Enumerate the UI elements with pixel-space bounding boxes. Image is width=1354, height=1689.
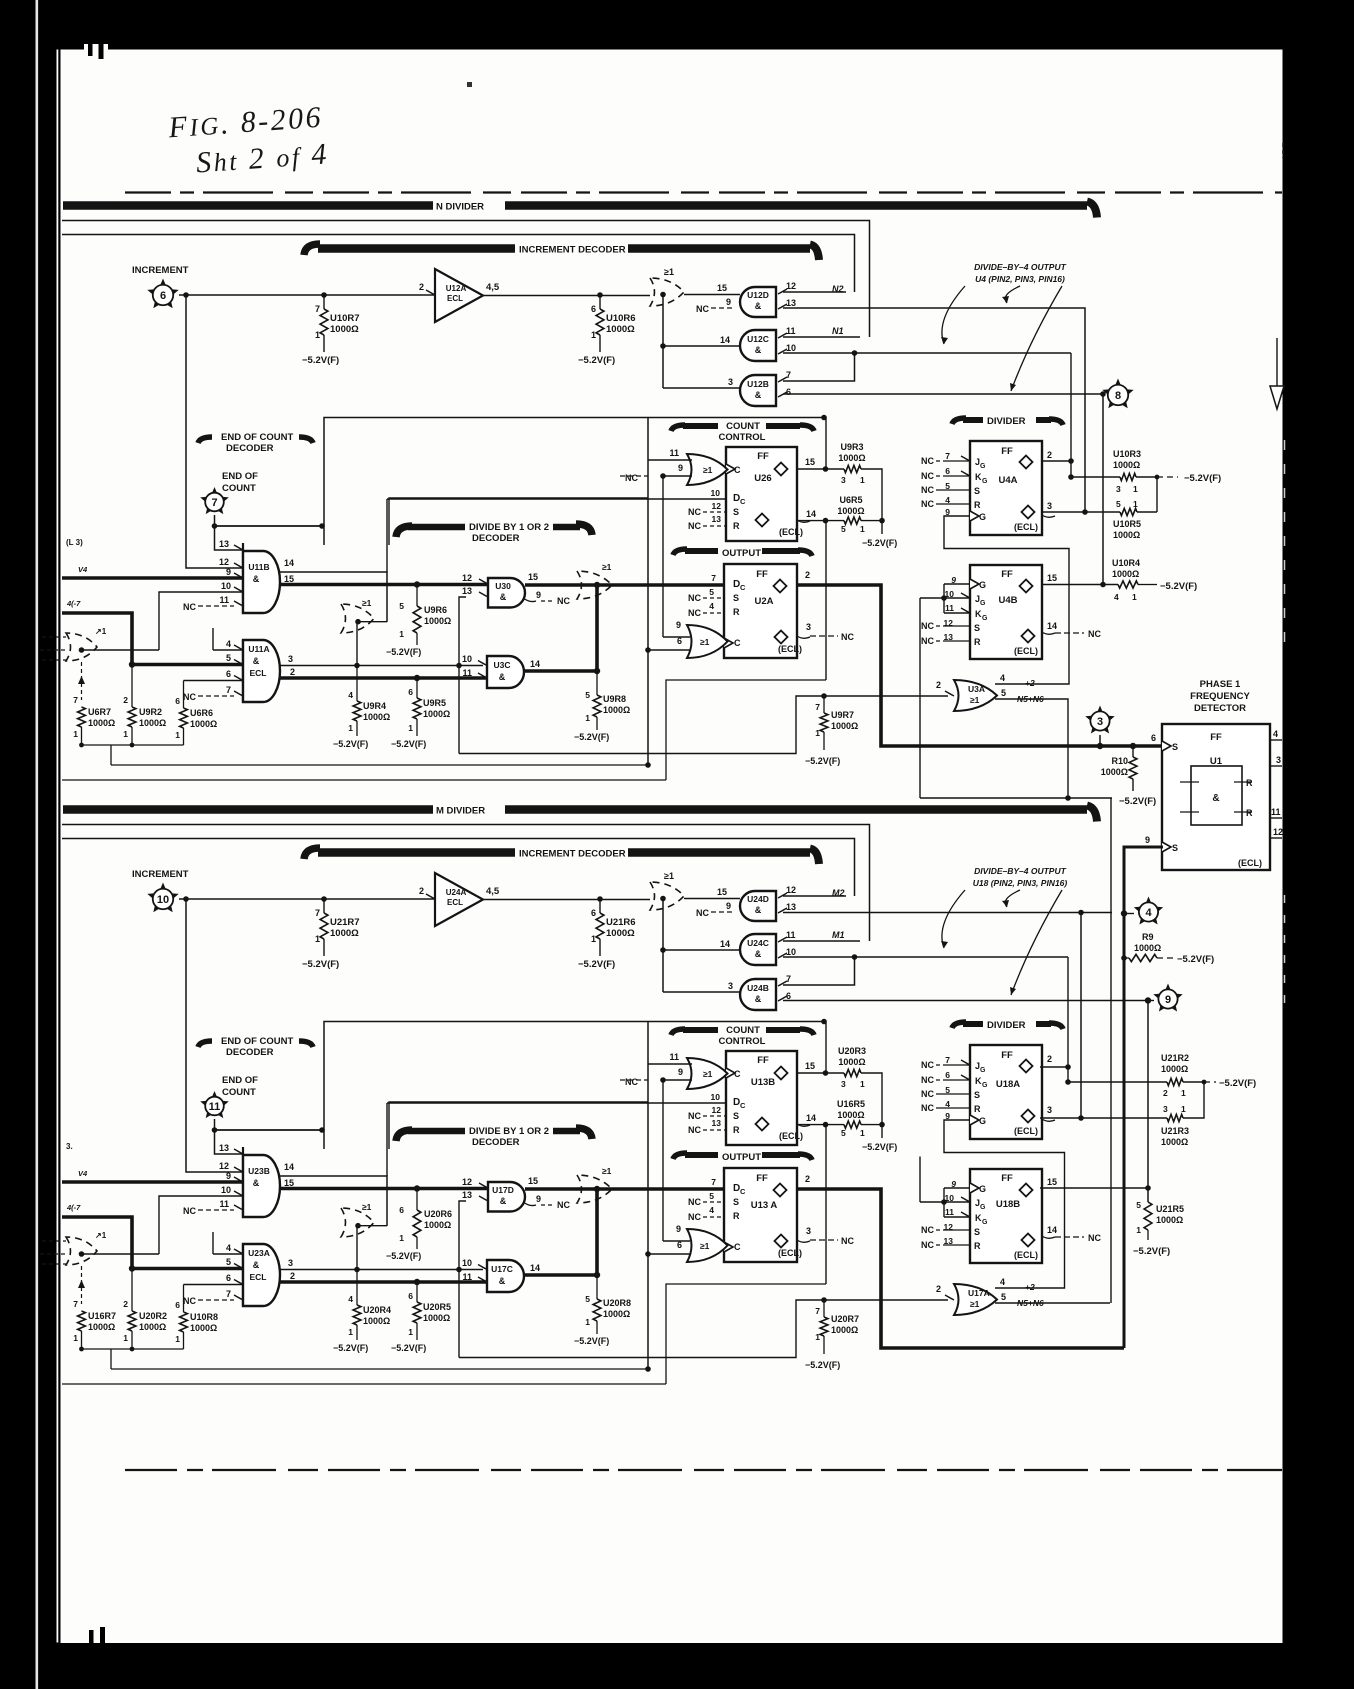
flip-flop U18A divider xyxy=(921,1045,1055,1139)
svg-text:−5.2V(F): −5.2V(F) xyxy=(386,647,421,657)
wire U18A pin3 output M xyxy=(1040,1117,1167,1119)
svg-text:15: 15 xyxy=(805,457,815,467)
wire down column xyxy=(645,418,651,768)
wire feedback upper xyxy=(324,1019,827,1149)
svg-text:NC: NC xyxy=(921,621,934,631)
svg-text:U9R4: U9R4 xyxy=(363,701,386,711)
svg-text:2: 2 xyxy=(1047,450,1052,460)
svg-text:5: 5 xyxy=(709,587,714,597)
svg-text:COUNT: COUNT xyxy=(222,1087,256,1098)
resistor U20R6 1000 xyxy=(386,1185,452,1261)
svg-text:K: K xyxy=(975,609,982,619)
svg-text:&: & xyxy=(755,345,762,355)
gate U17A OR xyxy=(936,1284,997,1315)
N DIVIDER section title band xyxy=(63,201,1097,217)
svg-text:11: 11 xyxy=(945,1207,954,1217)
stray mark xyxy=(467,82,472,87)
svg-text:5: 5 xyxy=(1116,499,1121,509)
svg-text:1: 1 xyxy=(408,723,413,733)
wire increment to gate inputs xyxy=(186,295,243,568)
resistor U10R6 1000 xyxy=(578,295,636,366)
svg-text:1: 1 xyxy=(1133,499,1138,509)
svg-text:−5.2V(F): −5.2V(F) xyxy=(333,1343,368,1353)
svg-text:C: C xyxy=(734,638,741,648)
svg-text:U20R5: U20R5 xyxy=(423,1302,451,1312)
svg-text:4: 4 xyxy=(1114,592,1119,602)
thick input wire 2 xyxy=(62,613,243,668)
svg-text:14: 14 xyxy=(530,659,540,669)
svg-text:NC: NC xyxy=(688,1125,701,1135)
svg-text:11: 11 xyxy=(786,930,796,940)
svg-text:13: 13 xyxy=(462,586,472,596)
svg-text:14: 14 xyxy=(1047,1225,1057,1235)
gate U24D AND xyxy=(684,885,796,921)
svg-text:4: 4 xyxy=(1000,673,1005,683)
wire U11B out14 xyxy=(280,1176,387,1226)
svg-text:3.: 3. xyxy=(66,1142,73,1151)
svg-text:FF: FF xyxy=(756,1173,768,1184)
svg-text:9: 9 xyxy=(678,1067,683,1077)
svg-text:≥1: ≥1 xyxy=(970,1299,980,1309)
svg-text:1: 1 xyxy=(123,1333,128,1343)
svg-text:15: 15 xyxy=(1047,573,1057,583)
svg-text:4(-7: 4(-7 xyxy=(66,1203,81,1212)
svg-text:R: R xyxy=(733,1125,740,1135)
svg-text:−5.2V(F): −5.2V(F) xyxy=(1133,1246,1170,1257)
svg-text:ECL: ECL xyxy=(447,898,463,907)
svg-text:7: 7 xyxy=(786,974,791,984)
svg-text:5: 5 xyxy=(1136,1200,1141,1210)
svg-text:≥1: ≥1 xyxy=(703,465,713,475)
svg-text:12: 12 xyxy=(786,885,796,895)
svg-text:&: & xyxy=(253,1178,260,1188)
svg-text:G: G xyxy=(982,478,988,485)
resistor U20R7 1000 xyxy=(805,1300,859,1370)
svg-text:1000Ω: 1000Ω xyxy=(190,1323,217,1333)
svg-text:1000Ω: 1000Ω xyxy=(603,1309,630,1319)
resistor U21R6 1000 xyxy=(578,899,636,970)
end of count decoder title xyxy=(198,432,313,454)
svg-text:R9: R9 xyxy=(1142,932,1154,942)
svg-text:1000Ω: 1000Ω xyxy=(423,1313,450,1323)
svg-text:10: 10 xyxy=(221,581,231,591)
svg-text:U3A: U3A xyxy=(968,684,985,694)
svg-text:3: 3 xyxy=(841,475,846,485)
flip-flop U13B xyxy=(688,1051,816,1145)
svg-text:DIVIDE BY 1 OR 2: DIVIDE BY 1 OR 2 xyxy=(469,522,549,533)
svg-text:NC: NC xyxy=(696,304,709,314)
svg-text:&: & xyxy=(253,574,260,584)
svg-text:+2: +2 xyxy=(1025,678,1035,688)
svg-text:U17C: U17C xyxy=(491,1264,513,1274)
svg-text:≥1: ≥1 xyxy=(700,637,710,647)
svg-text:5: 5 xyxy=(226,653,231,663)
svg-text:4: 4 xyxy=(709,601,714,611)
svg-text:5: 5 xyxy=(709,1191,714,1201)
resistor U21R5 1000 xyxy=(1133,1200,1184,1257)
registration tick marks top xyxy=(88,42,93,56)
svg-text:9: 9 xyxy=(1145,835,1150,845)
svg-text:6: 6 xyxy=(677,1240,682,1250)
svg-text:U20R3: U20R3 xyxy=(838,1046,866,1056)
node 7 END OF COUNT star xyxy=(200,471,258,514)
svg-text:ECL: ECL xyxy=(250,1272,267,1282)
end of count decoder title xyxy=(198,1036,313,1058)
svg-text:≥1: ≥1 xyxy=(602,1166,612,1176)
svg-text:U17D: U17D xyxy=(492,1185,514,1195)
svg-text:DECODER: DECODER xyxy=(226,1047,274,1058)
svg-text:≥1: ≥1 xyxy=(970,695,980,705)
svg-text:−5.2V(F): −5.2V(F) xyxy=(574,732,609,742)
flip-flop U4B divider xyxy=(921,565,1057,659)
svg-text:2: 2 xyxy=(1163,1088,1168,1098)
svg-text:NC: NC xyxy=(921,636,934,646)
svg-text:NC: NC xyxy=(1088,1233,1101,1243)
svg-text:4: 4 xyxy=(1145,907,1152,919)
svg-text:U6R6: U6R6 xyxy=(190,708,213,718)
svg-text:10: 10 xyxy=(711,1092,721,1102)
svg-text:5: 5 xyxy=(841,524,846,534)
svg-text:NC: NC xyxy=(557,596,570,606)
wire M2 feedback xyxy=(62,839,855,897)
svg-text:S: S xyxy=(733,1111,739,1121)
svg-text:NC: NC xyxy=(921,1103,934,1113)
edge arrow symbol xyxy=(1276,338,1278,388)
svg-text:5: 5 xyxy=(585,1294,590,1304)
svg-text:2: 2 xyxy=(290,1271,295,1281)
wire N5N6 output xyxy=(920,688,1112,801)
wire increment row xyxy=(183,896,603,902)
resistor R9 1000 xyxy=(1121,932,1214,965)
divider title xyxy=(952,416,1063,427)
svg-text:1: 1 xyxy=(860,524,865,534)
thick trunk upper xyxy=(280,1186,724,1192)
svg-text:15: 15 xyxy=(805,1061,815,1071)
svg-text:1000Ω: 1000Ω xyxy=(139,1322,166,1332)
svg-text:INCREMENT DECODER: INCREMENT DECODER xyxy=(519,849,626,860)
svg-text:−5.2V(F): −5.2V(F) xyxy=(574,1336,609,1346)
svg-text:V4: V4 xyxy=(78,1169,88,1178)
svg-text:1: 1 xyxy=(315,934,320,944)
svg-text:U10R7: U10R7 xyxy=(330,313,360,324)
svg-text:U13B: U13B xyxy=(751,1077,775,1088)
svg-text:13: 13 xyxy=(219,539,229,549)
flip-flop U18B divider xyxy=(921,1169,1057,1263)
left margin white gap line xyxy=(36,0,39,1689)
svg-text:K: K xyxy=(975,472,982,482)
svg-text:G: G xyxy=(979,1116,986,1126)
svg-text:6: 6 xyxy=(1151,733,1156,743)
svg-text:U12C: U12C xyxy=(747,334,769,344)
svg-text:14: 14 xyxy=(806,1113,816,1123)
svg-text:1000Ω: 1000Ω xyxy=(1112,569,1139,579)
svg-text:DIVIDER: DIVIDER xyxy=(987,1020,1026,1031)
wire resistor common xyxy=(79,1347,183,1369)
svg-text:7: 7 xyxy=(945,451,950,461)
svg-text:U26: U26 xyxy=(754,473,771,484)
resistor U9R3 1000 xyxy=(797,418,882,521)
svg-text:1: 1 xyxy=(585,713,590,723)
svg-text:9: 9 xyxy=(676,620,681,630)
wire M1 feedback xyxy=(62,825,870,942)
svg-text:R: R xyxy=(974,500,981,510)
svg-text:6: 6 xyxy=(786,991,791,1001)
svg-text:COUNT: COUNT xyxy=(726,421,760,432)
svg-text:4,5: 4,5 xyxy=(486,282,500,293)
gate U11B AND ECL xyxy=(183,539,294,613)
svg-text:1: 1 xyxy=(408,1327,413,1337)
resistor U10R8 1000 xyxy=(175,1285,243,1350)
wire star8 to U4B xyxy=(1100,394,1106,587)
wire N5+N6 bridge between sections xyxy=(1110,798,1112,1303)
svg-text:U11B: U11B xyxy=(248,562,269,572)
svg-text:1000Ω: 1000Ω xyxy=(139,718,166,728)
svg-text:7: 7 xyxy=(815,1306,820,1316)
svg-text:C: C xyxy=(740,1187,746,1196)
thick trunk lower xyxy=(280,585,600,678)
svg-text:1: 1 xyxy=(1181,1088,1186,1098)
svg-text:7: 7 xyxy=(73,695,78,705)
svg-text:(ECL): (ECL) xyxy=(778,644,802,654)
svg-text:K: K xyxy=(975,1076,982,1086)
svg-text:−5.2V(F): −5.2V(F) xyxy=(302,959,339,970)
svg-text:3: 3 xyxy=(1116,484,1121,494)
resistor U10R7 1000 xyxy=(302,295,360,366)
svg-text:G: G xyxy=(980,463,986,470)
svg-text:3: 3 xyxy=(728,377,733,387)
output title xyxy=(673,548,812,559)
svg-text:C: C xyxy=(740,1101,746,1110)
gate U17C AND xyxy=(462,1258,540,1292)
svg-text:END OF COUNT: END OF COUNT xyxy=(221,432,294,443)
long wire lower2 xyxy=(62,1284,826,1384)
svg-text:1000Ω: 1000Ω xyxy=(330,324,359,335)
flip-flop U1 phase detector xyxy=(1145,724,1283,870)
svg-text:1: 1 xyxy=(315,330,320,340)
wire U11B out14 xyxy=(280,572,387,622)
svg-text:1000Ω: 1000Ω xyxy=(1113,530,1140,540)
svg-text:V4: V4 xyxy=(78,565,88,574)
svg-text:−5.2V(F): −5.2V(F) xyxy=(386,1251,421,1261)
resistor U10R4 1000 xyxy=(1102,558,1197,602)
svg-text:2: 2 xyxy=(805,570,810,580)
svg-text:END OF: END OF xyxy=(222,1075,258,1086)
svg-text:COUNT: COUNT xyxy=(222,483,256,494)
count control title xyxy=(671,421,814,443)
svg-text:6: 6 xyxy=(677,636,682,646)
svg-text:&: & xyxy=(499,1276,506,1286)
svg-text:2: 2 xyxy=(1047,1054,1052,1064)
cut wire labels left xyxy=(66,538,88,608)
svg-text:11: 11 xyxy=(786,326,796,336)
svg-text:12: 12 xyxy=(462,1177,472,1187)
node 6 INCREMENT input star xyxy=(132,265,189,308)
node 3 star xyxy=(1085,706,1114,747)
svg-text:9: 9 xyxy=(676,1224,681,1234)
phantom OR gate trunk xyxy=(577,1166,612,1203)
svg-text:S: S xyxy=(974,1227,980,1237)
svg-text:12: 12 xyxy=(219,1161,229,1171)
svg-text:NC: NC xyxy=(557,1200,570,1210)
svg-text:U18 (PIN2, PIN3, PIN16): U18 (PIN2, PIN3, PIN16) xyxy=(973,878,1068,888)
gate U30 AND xyxy=(462,572,571,608)
svg-text:N1: N1 xyxy=(832,326,844,336)
svg-text:15: 15 xyxy=(717,887,727,897)
svg-text:1: 1 xyxy=(591,934,596,944)
divide by 1 or 2 decoder box xyxy=(389,498,648,545)
svg-text:R: R xyxy=(974,1241,981,1251)
svg-text:1000Ω: 1000Ω xyxy=(1161,1137,1188,1147)
wire M2 label xyxy=(832,888,845,898)
resistor U9R7 1000 xyxy=(805,696,858,766)
svg-text:13: 13 xyxy=(786,902,796,912)
svg-text:1: 1 xyxy=(399,1233,404,1243)
svg-text:1000Ω: 1000Ω xyxy=(1113,460,1140,470)
divide by 1 or 2 title xyxy=(396,522,592,544)
phantom OR gate increment xyxy=(650,871,684,992)
svg-text:NC: NC xyxy=(688,608,701,618)
svg-text:1000Ω: 1000Ω xyxy=(88,1322,115,1332)
svg-text:1000Ω: 1000Ω xyxy=(837,1110,864,1120)
svg-text:5: 5 xyxy=(1001,1292,1006,1302)
svg-text:5: 5 xyxy=(226,1257,231,1267)
svg-text:7: 7 xyxy=(711,573,716,583)
wire U11B pin10 input xyxy=(159,1196,243,1254)
svg-text:≥1: ≥1 xyxy=(362,1202,372,1212)
svg-text:1000Ω: 1000Ω xyxy=(1134,943,1161,953)
svg-text:−5.2V(F): −5.2V(F) xyxy=(805,1360,840,1370)
M DIVIDER section title band xyxy=(63,805,1097,821)
svg-text:&: & xyxy=(1212,793,1219,804)
wire plus2 output xyxy=(1000,673,1035,688)
svg-text:7: 7 xyxy=(786,370,791,380)
svg-text:FF: FF xyxy=(1001,1050,1013,1061)
svg-text:1: 1 xyxy=(175,1334,180,1344)
wire U30 pin13 bus xyxy=(459,597,466,754)
svg-text:1: 1 xyxy=(860,1079,865,1089)
svg-text:NC: NC xyxy=(921,1225,934,1235)
resistor U6R7 1000 xyxy=(73,695,115,745)
resistor U10R5 1000 xyxy=(1113,499,1157,540)
svg-text:9: 9 xyxy=(226,1171,231,1181)
svg-text:13: 13 xyxy=(712,514,722,524)
svg-text:11: 11 xyxy=(1271,807,1281,817)
svg-text:1: 1 xyxy=(1136,1225,1141,1235)
svg-text:11: 11 xyxy=(669,1052,679,1062)
svg-text:R: R xyxy=(733,607,740,617)
svg-text:NC: NC xyxy=(688,1212,701,1222)
phantom dashes to resistor xyxy=(78,1266,85,1304)
svg-text:13: 13 xyxy=(462,1190,472,1200)
svg-text:INCREMENT: INCREMENT xyxy=(132,869,189,880)
svg-text:12: 12 xyxy=(712,1105,722,1115)
svg-text:(ECL): (ECL) xyxy=(779,1131,803,1141)
phantom dashes to resistor xyxy=(78,662,85,700)
svg-text:NC: NC xyxy=(183,1206,196,1216)
resistor U20R8 1000 xyxy=(574,1275,631,1346)
svg-text:2: 2 xyxy=(290,667,295,677)
svg-text:&: & xyxy=(755,905,762,915)
svg-text:R: R xyxy=(733,1211,740,1221)
wire end of count xyxy=(212,515,325,550)
svg-text:≥1: ≥1 xyxy=(700,1241,710,1251)
svg-text:14: 14 xyxy=(720,939,730,949)
node 11 END OF COUNT star xyxy=(200,1075,258,1118)
svg-text:1: 1 xyxy=(399,629,404,639)
svg-text:ECL: ECL xyxy=(250,668,267,678)
svg-text:7: 7 xyxy=(315,304,320,314)
svg-text:12: 12 xyxy=(1273,827,1283,837)
svg-text:U21R7: U21R7 xyxy=(330,917,360,928)
svg-text:NC: NC xyxy=(688,521,701,531)
svg-text:U18B: U18B xyxy=(996,1199,1020,1210)
svg-text:DIVIDE BY 1 OR 2: DIVIDE BY 1 OR 2 xyxy=(469,1126,549,1137)
svg-text:G: G xyxy=(979,512,986,522)
svg-text:2: 2 xyxy=(123,695,128,705)
phantom gate left xyxy=(40,627,159,661)
svg-text:U10R5: U10R5 xyxy=(1113,519,1141,529)
wire G loop xyxy=(944,1120,1065,1288)
resistor U6R5 1000 xyxy=(797,495,897,680)
svg-text:U16R5: U16R5 xyxy=(837,1099,865,1109)
svg-text:3: 3 xyxy=(728,981,733,991)
svg-text:NC: NC xyxy=(1088,629,1101,639)
gate U23B AND ECL xyxy=(183,1143,294,1217)
svg-text:12: 12 xyxy=(712,501,722,511)
svg-text:R: R xyxy=(733,521,740,531)
svg-text:&: & xyxy=(253,1260,260,1270)
svg-text:−5.2V(F): −5.2V(F) xyxy=(805,756,840,766)
long wire lower1 xyxy=(111,1368,648,1370)
divide-by-4 note xyxy=(941,262,1067,391)
svg-text:10: 10 xyxy=(221,1185,231,1195)
svg-text:FF: FF xyxy=(757,1055,769,1066)
svg-text:13: 13 xyxy=(712,1118,722,1128)
svg-text:5: 5 xyxy=(585,690,590,700)
svg-text:9: 9 xyxy=(678,463,683,473)
svg-text:DIVIDE–BY–4 OUTPUT: DIVIDE–BY–4 OUTPUT xyxy=(974,866,1066,876)
svg-text:2: 2 xyxy=(936,680,941,690)
node 4 star xyxy=(1121,897,1163,925)
svg-text:7: 7 xyxy=(73,1299,78,1309)
svg-text:4: 4 xyxy=(1273,729,1278,739)
svg-text:4,5: 4,5 xyxy=(486,886,500,897)
svg-text:1000Ω: 1000Ω xyxy=(837,506,864,516)
resistor U9R4 1000 xyxy=(333,666,390,750)
svg-text:3: 3 xyxy=(806,1226,811,1236)
svg-text:1: 1 xyxy=(73,729,78,739)
svg-text:↗1: ↗1 xyxy=(95,627,107,636)
svg-text:U20R7: U20R7 xyxy=(831,1314,859,1324)
svg-text:&: & xyxy=(755,301,762,311)
wire down column xyxy=(645,1022,651,1372)
svg-text:≥1: ≥1 xyxy=(362,598,372,608)
svg-text:NC: NC xyxy=(625,1077,638,1087)
gate OR U13B clock xyxy=(648,1052,728,1089)
svg-text:U4A: U4A xyxy=(998,475,1017,486)
svg-text:NC: NC xyxy=(688,507,701,517)
svg-text:9: 9 xyxy=(1165,994,1171,1006)
svg-text:7: 7 xyxy=(815,702,820,712)
svg-text:U23B: U23B xyxy=(248,1166,270,1176)
svg-text:(ECL): (ECL) xyxy=(1014,646,1038,656)
svg-text:NC: NC xyxy=(183,692,196,702)
svg-text:1: 1 xyxy=(591,330,596,340)
page left edge shadow line xyxy=(57,50,59,1643)
svg-text:R10: R10 xyxy=(1111,756,1128,766)
svg-text:4(-7: 4(-7 xyxy=(66,599,81,608)
svg-text:NC: NC xyxy=(688,1197,701,1207)
